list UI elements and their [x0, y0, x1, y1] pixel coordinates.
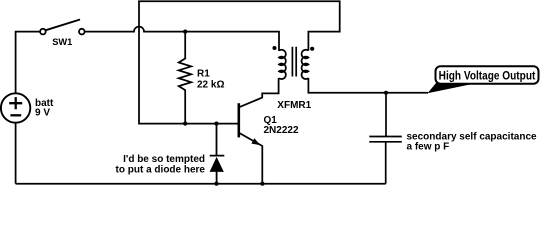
- svg-text:High Voltage Output: High Voltage Output: [439, 70, 536, 83]
- svg-text:to put a diode here: to put a diode here: [116, 165, 206, 176]
- svg-text:XFMR1: XFMR1: [277, 100, 311, 111]
- svg-text:SW1: SW1: [52, 37, 72, 47]
- svg-text:9 V: 9 V: [35, 107, 50, 118]
- svg-text:22 kΩ: 22 kΩ: [197, 79, 224, 90]
- svg-text:R1: R1: [197, 69, 210, 80]
- svg-text:2N2222: 2N2222: [264, 125, 299, 136]
- svg-text:a few p F: a few p F: [407, 142, 450, 153]
